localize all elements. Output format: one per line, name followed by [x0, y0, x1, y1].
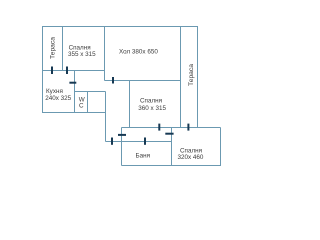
wall y70 — [43, 70, 105, 72]
window marker T6 — [111, 138, 113, 145]
bottom wall — [122, 165, 221, 167]
wall y127 — [122, 127, 221, 129]
door marker T4 hall — [112, 77, 114, 84]
wc divider — [87, 92, 89, 113]
svg-text:Тераса: Тераса — [50, 37, 57, 59]
door marker T8 bedroom3 — [165, 133, 173, 135]
svg-text:355 х 315: 355 х 315 — [68, 51, 96, 58]
bath left wall — [121, 128, 123, 166]
door marker T7 — [118, 134, 126, 136]
outer left wall — [42, 26, 44, 113]
svg-text:Баня: Баня — [136, 153, 151, 160]
svg-text:320х 460: 320х 460 — [178, 154, 204, 161]
kitchen right wall — [74, 71, 76, 113]
wc top wall — [75, 91, 106, 93]
outer top wall — [42, 26, 198, 28]
terrace1 divider — [62, 27, 64, 71]
bedroom2 left wall — [129, 81, 131, 128]
window marker T1 — [51, 67, 53, 75]
window marker T9 — [158, 124, 160, 131]
outer right wall — [197, 26, 199, 128]
corridor left wall — [105, 92, 107, 142]
svg-text:Тераса: Тераса — [188, 64, 195, 86]
svg-text:240х 325: 240х 325 — [45, 95, 71, 102]
door marker T5 bath — [144, 138, 146, 145]
hall bottom wall — [105, 80, 181, 82]
svg-text:360 х 315: 360 х 315 — [138, 105, 166, 112]
door marker T3 kitchen — [69, 82, 76, 84]
svg-text:Спалня: Спалня — [140, 98, 162, 105]
bath top wall — [106, 141, 172, 143]
window marker T2 — [66, 67, 68, 75]
svg-text:C: C — [79, 103, 84, 110]
bedroom3 right wall — [220, 128, 222, 167]
window marker T10 — [187, 124, 189, 131]
bedroom3 left wall — [171, 128, 173, 166]
terrace2 left wall — [180, 27, 182, 128]
bedroom1/hall divider — [104, 27, 106, 81]
kitchen bottom wall — [42, 112, 106, 114]
svg-text:Хол 380х 650: Хол 380х 650 — [119, 49, 158, 56]
